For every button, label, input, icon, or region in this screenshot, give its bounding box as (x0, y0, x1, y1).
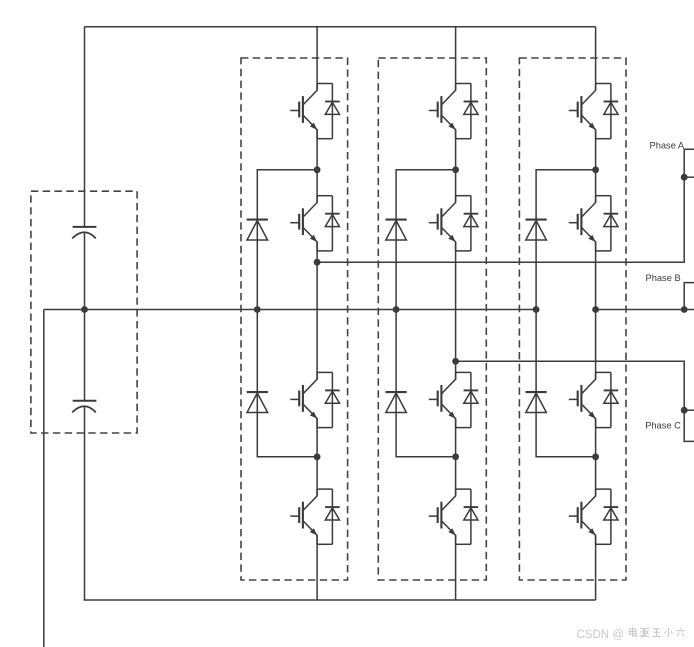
transistor Q10 (IGBT with freewheel diode) (569, 196, 618, 251)
wire leg 2 clamp branch (396, 170, 456, 457)
diode D1 upper clamp (247, 220, 268, 240)
transistor Q6 (IGBT with freewheel diode) (429, 196, 478, 251)
watermark (577, 627, 685, 641)
wire leg 1 main column (316, 27, 318, 600)
dashed enclosure phase leg 3 (519, 58, 626, 580)
wire neutral bus (44, 309, 536, 311)
node leg 1 neutral tap (254, 306, 261, 313)
node leg 3 upper clamp junction (592, 166, 599, 173)
wire Phase B from leg 3 output to right edge (596, 309, 694, 311)
wire DC-link capacitor column (84, 27, 86, 226)
node leg 1 phase output (314, 259, 321, 266)
transistor Q2 (IGBT with freewheel diode) (290, 196, 339, 251)
svg-text:Phase B: Phase B (646, 273, 681, 283)
node leg 3 phase output (592, 306, 599, 313)
node leg 2 phase output (452, 358, 459, 365)
capacitor C2 (72, 401, 96, 413)
wire DC+ top rail (85, 26, 596, 28)
dashed enclosure DC-link capacitors (31, 191, 137, 433)
wire Phase A lower stub (684, 176, 694, 178)
diode D6 lower clamp (526, 392, 547, 412)
transistor Q12 (IGBT with freewheel diode) (569, 489, 618, 544)
node leg 1 lower clamp junction (314, 453, 321, 460)
capacitor C1 (72, 227, 96, 239)
dashed enclosure phase leg 1 (241, 58, 348, 580)
dashed enclosure phase leg 2 (378, 58, 486, 580)
diode D3 upper clamp (386, 220, 407, 240)
svg-text:Phase A: Phase A (650, 141, 685, 151)
node Phase A terminal junction (681, 174, 688, 181)
wire DC- bottom rail (84, 599, 596, 601)
transistor Q4 (IGBT with freewheel diode) (290, 489, 339, 544)
svg-text:CSDN @: CSDN @ (577, 629, 624, 641)
transistor Q11 (IGBT with freewheel diode) (569, 372, 618, 427)
wire neutral drop to bottom edge (43, 310, 45, 647)
transistor Q8 (IGBT with freewheel diode) (429, 489, 478, 544)
wire Phase B upper stub (684, 283, 694, 310)
node leg 2 upper clamp junction (452, 166, 459, 173)
wire leg 2 main column (455, 27, 457, 600)
wire Phase C from leg 2 output to right terminal (456, 361, 694, 441)
wire leg 3 clamp branch (536, 170, 596, 457)
transistor Q7 (IGBT with freewheel diode) (429, 372, 478, 427)
svg-text:Phase C: Phase C (645, 420, 681, 430)
wire leg 1 clamp branch (257, 170, 317, 457)
node leg 2 neutral tap (393, 306, 400, 313)
node leg 3 neutral tap (533, 306, 540, 313)
wire leg 3 main column (595, 27, 597, 600)
diode D4 lower clamp (386, 392, 407, 412)
node leg 2 lower clamp junction (452, 453, 459, 460)
transistor Q1 (IGBT with freewheel diode) (290, 84, 339, 139)
node Phase C terminal junction (681, 407, 688, 414)
diode D5 upper clamp (526, 220, 547, 240)
wire Phase A from leg 1 output to right terminal (317, 149, 694, 262)
node leg 3 lower clamp junction (592, 453, 599, 460)
wire Phase C middle stub (684, 409, 694, 411)
node Phase B terminal junction (681, 306, 688, 313)
transistor Q9 (IGBT with freewheel diode) (569, 84, 618, 139)
transistor Q5 (IGBT with freewheel diode) (429, 84, 478, 139)
diode D2 lower clamp (247, 392, 268, 412)
node neutral at capacitor midpoint (81, 306, 88, 313)
transistor Q3 (IGBT with freewheel diode) (290, 372, 339, 427)
node leg 1 upper clamp junction (314, 166, 321, 173)
